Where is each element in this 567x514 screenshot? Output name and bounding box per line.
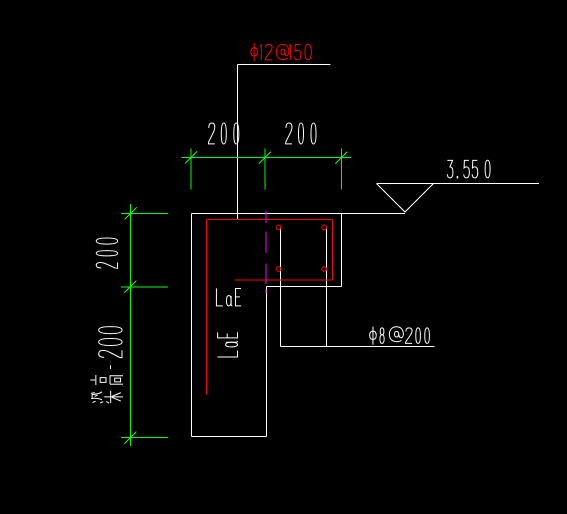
- rotated dimension text 200 (left): [96, 238, 117, 268]
- wire: column bottom edge: [192, 436, 267, 438]
- rebar: red bottom bar: [235, 279, 333, 281]
- wire: leader vertical for Φ12@150: [237, 65, 239, 220]
- dimension line: horizontal 200+200: [182, 157, 352, 159]
- dimension text 200 (right span): [286, 123, 292, 144]
- extension line middle: [264, 149, 266, 190]
- extension line left: [190, 149, 192, 190]
- text LaE (rotated, in column): [218, 332, 238, 357]
- wire: stirrup leader right vertical: [325, 227, 327, 346]
- rebar: red top bar: [207, 219, 333, 221]
- rebar section dot top-right: [322, 225, 327, 230]
- dim tick middle (y287): [124, 281, 136, 293]
- wire: stirrup leader left vertical: [280, 227, 282, 346]
- dimension text 200 (left span): [208, 123, 214, 144]
- rebar: red right vertical: [332, 220, 334, 281]
- rebar section dot bottom-right: [322, 267, 327, 272]
- dim tick bottom (y437): [124, 432, 136, 444]
- dimension line: vertical left: [129, 204, 131, 446]
- rotated text 梁高-200 (beam height label): [90, 327, 123, 404]
- wire: column right edge: [265, 287, 267, 437]
- dim tick right: [335, 152, 347, 164]
- wire: label underline for Φ8@200: [281, 346, 435, 348]
- wire: elevation level line 3.550: [377, 183, 540, 185]
- wire: beam bottom edge: [266, 286, 341, 288]
- text Φ8@200: [370, 327, 377, 345]
- elevation text 3.550: [447, 160, 453, 178]
- wire: beam top edge: [192, 212, 406, 214]
- rebar section dot bottom-left: [276, 267, 281, 272]
- dim tick top (y213): [124, 207, 136, 219]
- text label Φ12@150 (red): [251, 43, 258, 61]
- text LaE (horizontal): [216, 288, 222, 305]
- hidden line: column face through beam (dashed magenta): [265, 211, 267, 223]
- extension line top: [121, 212, 168, 214]
- wire: column left edge: [191, 213, 193, 436]
- wire: beam right end edge: [341, 213, 343, 286]
- elevation triangle left side: [377, 184, 405, 213]
- dim tick middle: [259, 152, 271, 164]
- elevation triangle right side: [405, 184, 434, 213]
- wire: leader underline for Φ12@150: [238, 64, 331, 66]
- dim tick left: [185, 152, 197, 164]
- rebar: red left vertical leg into column: [206, 220, 208, 395]
- extension line right: [340, 149, 342, 190]
- extension line bottom: [121, 437, 168, 439]
- rebar section dot top-left: [276, 225, 281, 230]
- extension line middle: [121, 286, 168, 288]
